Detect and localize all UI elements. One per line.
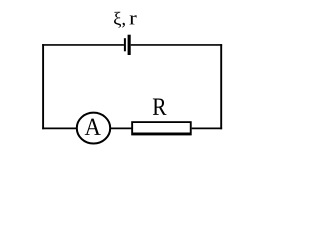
label r (internal resistance) [130,15,137,24]
battery short plate (left) [124,38,126,51]
wire: top-left segment (left corner to battery) [42,44,124,46]
wire: top-right segment (battery to right corner) [131,44,222,46]
wire: bottom-left segment (left corner to ammeter) [42,127,76,129]
wire: bottom-middle segment (ammeter to resistor) [111,127,133,129]
label comma after ξ [122,23,125,28]
resistor R (rectangle, thicker bottom edge) [131,121,192,135]
ammeter A1 (circle) [77,113,110,144]
wire: right side [220,44,222,129]
battery long plate (right) [128,35,131,55]
label R (resistor value label) [153,99,167,115]
ammeter letter A [85,119,101,135]
wire: left side [42,44,44,129]
label ξ (EMF symbol) [114,12,121,28]
wire: bottom-right segment (resistor to right corner) [192,127,222,129]
